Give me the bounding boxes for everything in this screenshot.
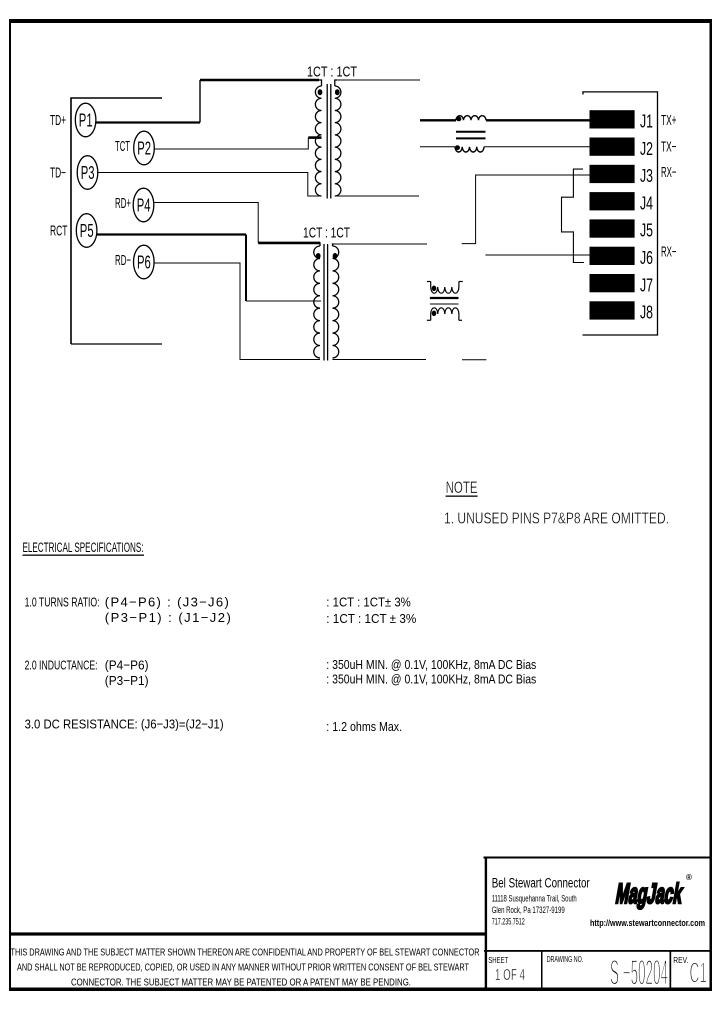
svg-text:1.0 TURNS RATIO:: 1.0 TURNS RATIO: — [25, 595, 100, 610]
svg-text:RCT: RCT — [50, 224, 68, 240]
svg-text:REV.: REV. — [673, 956, 688, 965]
svg-text:P6: P6 — [137, 252, 151, 272]
svg-text:P3: P3 — [81, 163, 95, 183]
svg-text:J8: J8 — [640, 303, 653, 323]
svg-text:http://www.stewartconnector.co: http://www.stewartconnector.com — [590, 918, 705, 929]
svg-text:1CT : 1CT: 1CT : 1CT — [303, 225, 350, 242]
svg-text:Glen Rock, Pa 17327-9199: Glen Rock, Pa 17327-9199 — [492, 905, 565, 915]
svg-text:TD−: TD− — [50, 166, 66, 182]
svg-text:CONNECTOR. THE SUBJECT MATTER: CONNECTOR. THE SUBJECT MATTER MAY BE PAT… — [71, 978, 411, 989]
svg-text:: 350uH MIN. @ 0.1V, 100KHz,: : 350uH MIN. @ 0.1V, 100KHz, 8mA DC Bias — [326, 672, 536, 687]
svg-text:(P4−P6) : (J3−J6): (P4−P6) : (J3−J6) — [105, 595, 229, 610]
svg-text:(P3−P1): (P3−P1) — [105, 673, 149, 688]
svg-text:ELECTRICAL SPECIFICATIONS:: ELECTRICAL SPECIFICATIONS: — [23, 540, 144, 555]
svg-text:TX−: TX− — [661, 140, 677, 156]
svg-text:(P3−P1) : (J1−J2): (P3−P1) : (J1−J2) — [105, 610, 231, 625]
svg-text:®: ® — [686, 873, 692, 882]
svg-text:TCT: TCT — [115, 139, 130, 155]
svg-text:RX−: RX− — [661, 245, 677, 261]
svg-text:1 OF 4: 1 OF 4 — [495, 967, 525, 984]
svg-text:MagJack: MagJack — [614, 877, 686, 909]
svg-text:C1: C1 — [690, 958, 708, 990]
svg-text:J2: J2 — [640, 139, 653, 159]
svg-text:J3: J3 — [640, 166, 653, 186]
svg-text:AND SHALL NOT BE REPRODUCED, C: AND SHALL NOT BE REPRODUCED, COPIED, OR … — [17, 963, 469, 974]
svg-text:NOTE: NOTE — [446, 479, 478, 497]
svg-text:P4: P4 — [137, 195, 151, 215]
svg-text:3.0 DC RESISTANCE: (J6−J3)=(J: 3.0 DC RESISTANCE: (J6−J3)=(J2−J1) — [25, 717, 224, 732]
svg-text:1CT : 1CT: 1CT : 1CT — [307, 64, 357, 81]
svg-text:P1: P1 — [79, 110, 93, 130]
svg-text:RD+: RD+ — [115, 196, 131, 212]
svg-text:11118 Susquehanna Trail, South: 11118 Susquehanna Trail, South — [492, 894, 577, 904]
svg-text:(P4−P6): (P4−P6) — [105, 658, 149, 673]
svg-text:SHEET: SHEET — [488, 956, 508, 965]
svg-text:: 350uH MIN. @ 0.1V, 100KHz,: : 350uH MIN. @ 0.1V, 100KHz, 8mA DC Bias — [326, 657, 536, 672]
svg-text:RX−: RX− — [661, 165, 677, 181]
svg-text:J4: J4 — [640, 193, 653, 213]
svg-text:: 1CT : 1CT± 3%: : 1CT : 1CT± 3% — [326, 595, 411, 610]
svg-text:DRAWING NO.: DRAWING NO. — [547, 955, 584, 964]
svg-text:TD+: TD+ — [50, 113, 66, 129]
svg-text:2.0 INDUCTANCE:: 2.0 INDUCTANCE: — [25, 658, 98, 673]
svg-text:RD−: RD− — [115, 253, 131, 269]
svg-text:P2: P2 — [137, 138, 151, 158]
svg-text:: 1.2 ohms Max.: : 1.2 ohms Max. — [326, 719, 402, 734]
svg-text:Bel Stewart Connector: Bel Stewart Connector — [492, 875, 590, 890]
svg-text:P5: P5 — [80, 221, 94, 241]
svg-text:TX+: TX+ — [661, 113, 677, 129]
svg-text:1. UNUSED PINS P7&P8 ARE OMITT: 1. UNUSED PINS P7&P8 ARE OMITTED. — [444, 511, 669, 528]
svg-text:THIS DRAWING AND THE SUBJECT M: THIS DRAWING AND THE SUBJECT MATTER SHOW… — [11, 947, 480, 958]
svg-text:: 1CT : 1CT ± 3%: : 1CT : 1CT ± 3% — [326, 611, 416, 626]
svg-text:717.235.7512: 717.235.7512 — [492, 917, 525, 927]
svg-text:J7: J7 — [640, 275, 653, 295]
svg-text:S −50204: S −50204 — [610, 954, 668, 993]
svg-text:J1: J1 — [640, 112, 653, 132]
svg-text:J6: J6 — [640, 248, 653, 268]
svg-text:J5: J5 — [640, 221, 653, 241]
